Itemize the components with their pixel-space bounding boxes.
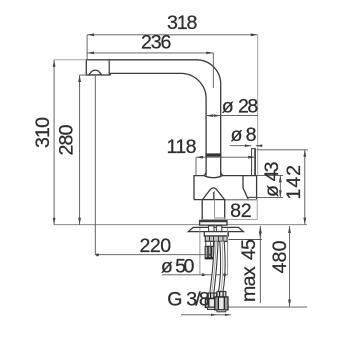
arrow 236 left — [87, 52, 94, 55]
body bottom edge — [194, 199, 257, 201]
svg-text:280: 280 — [56, 124, 78, 155]
arrow ø28 right — [214, 114, 221, 117]
escutcheon plate — [188, 227, 243, 231]
arrow ø43 bottom — [279, 190, 282, 197]
spout end piece — [86, 60, 110, 75]
spout divider — [109, 60, 111, 75]
svg-text:480: 480 — [269, 240, 291, 273]
arrow 310 top — [53, 60, 56, 67]
dim 236 line — [87, 52, 213, 54]
lower tube — [202, 200, 225, 221]
svg-text:310: 310 — [32, 117, 54, 148]
tube top shading — [215, 217, 225, 221]
wire countertop reference line — [54, 224, 307, 226]
arrow 310 bottom — [53, 218, 56, 225]
ø50 left extension — [199, 228, 201, 275]
dim ø8 line right — [256, 145, 261, 147]
dot ø50 left — [202, 274, 205, 277]
under-counter nut block — [205, 236, 227, 241]
hose 1 — [210, 242, 218, 294]
dimension graphics — [54, 35, 308, 315]
under-counter spacer — [204, 232, 228, 236]
dim 118 line — [196, 156, 255, 158]
dot ø50 right — [223, 274, 226, 277]
pipe flare left — [203, 172, 206, 176]
ø50 right extension — [227, 228, 229, 275]
svg-text:220: 220 — [139, 235, 171, 257]
leader G38 — [181, 314, 231, 316]
arrow ø8 left — [245, 144, 252, 147]
arrow 480 top — [288, 226, 291, 233]
dim 318 left extension — [86, 35, 88, 60]
dim 280 line — [79, 75, 81, 225]
dim ø43 line — [279, 175, 281, 197]
dot 220 left — [96, 254, 99, 257]
svg-text:318: 318 — [167, 12, 198, 34]
mounting nut details — [209, 226, 214, 232]
arrow 142 top — [303, 150, 306, 157]
pipe flare right — [221, 172, 224, 176]
dim max45 bottom reference — [229, 239, 263, 241]
swivel joint band — [205, 153, 221, 156]
box 82 top — [225, 199, 257, 201]
dim ø43 top extension — [257, 174, 283, 176]
ref 220 polyline — [95, 76, 210, 255]
svg-text:236: 236 — [141, 31, 171, 53]
arrow 480 bottom — [288, 300, 291, 307]
svg-text:ø 50: ø 50 — [161, 256, 195, 278]
arrow 318 left — [87, 33, 94, 36]
arrow 142 bottom — [303, 218, 306, 225]
dim 142 line — [304, 150, 306, 225]
svg-text:ø 43: ø 43 — [261, 161, 283, 197]
arrow ø28 left — [206, 114, 213, 117]
cone center line — [212, 192, 214, 200]
hose 2 fitting — [217, 292, 226, 298]
arrow 318 right — [251, 33, 258, 36]
svg-text:142: 142 — [283, 165, 305, 200]
hose 1 fitting — [208, 293, 216, 299]
hose 1 braid line — [212, 242, 216, 294]
svg-text:ø 28: ø 28 — [222, 96, 259, 118]
arrow G38 b — [225, 314, 231, 316]
collar — [200, 221, 227, 226]
arrow ø8 right — [256, 144, 262, 147]
dim 318 line — [87, 34, 258, 36]
dim 310 top extension — [54, 59, 86, 61]
svg-text:82: 82 — [230, 200, 252, 222]
dim 310 line — [53, 60, 55, 225]
lower tube center line — [214, 191, 216, 219]
handle front line — [243, 176, 249, 200]
dot 220 right — [209, 254, 212, 257]
arrow 118 left — [196, 156, 203, 159]
dim ø28 line — [206, 115, 258, 117]
stud nut — [205, 246, 214, 258]
hose 2 — [219, 242, 226, 292]
arrow max45 top — [259, 226, 262, 233]
arrow G38 a — [211, 314, 217, 316]
handle bottom edge — [247, 196, 257, 198]
dim ø43 bottom extension — [249, 196, 283, 198]
dim 480 line — [289, 226, 291, 307]
box 82 right — [256, 200, 258, 220]
threaded stud — [206, 241, 214, 246]
hose 2 braid line — [221, 242, 223, 292]
ext 480 bottom — [229, 306, 308, 308]
svg-text:max 45: max 45 — [238, 239, 260, 302]
dim 280 top extension — [80, 74, 87, 76]
svg-text:G 3/8: G 3/8 — [167, 288, 210, 310]
svg-text:118: 118 — [167, 136, 197, 158]
aerator — [89, 70, 102, 75]
hose guide pipe ø8 — [252, 149, 256, 176]
dim 118 left extension — [195, 157, 197, 175]
leader ø50 — [162, 274, 228, 276]
arrow 280 bottom — [78, 218, 81, 225]
body cone — [203, 188, 225, 200]
box 82 bottom — [202, 219, 257, 221]
dim ø8 line left — [230, 145, 252, 147]
svg-text:ø 8: ø 8 — [231, 124, 257, 146]
dim 142 top extension — [257, 149, 308, 151]
dim 236 right extension — [212, 53, 214, 88]
arrow ø43 top — [279, 175, 282, 182]
dim max45 line — [259, 226, 261, 303]
spout tube — [110, 60, 221, 176]
arrow 118 right — [248, 156, 255, 159]
arrow max45 bottom — [259, 232, 262, 239]
dim 318 right extension — [257, 35, 259, 176]
arrowheads — [53, 33, 306, 316]
arrow 236 right — [206, 52, 213, 55]
body — [194, 176, 257, 200]
arrow 280 top — [78, 75, 81, 82]
